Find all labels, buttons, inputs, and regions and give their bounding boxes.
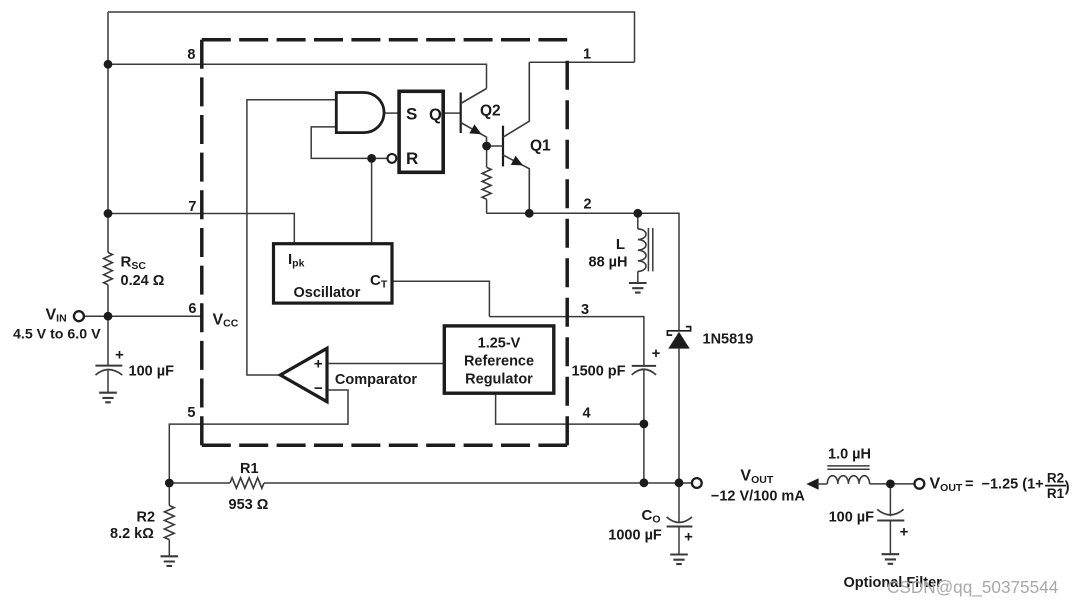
svg-text:1: 1 xyxy=(583,47,591,63)
svg-text:R2: R2 xyxy=(137,509,156,525)
svg-text:+: + xyxy=(115,346,124,363)
svg-text:): ) xyxy=(1065,480,1070,496)
svg-text:Q: Q xyxy=(429,106,442,124)
svg-text:Q2: Q2 xyxy=(480,103,501,120)
svg-text:5: 5 xyxy=(187,405,195,421)
svg-text:R: R xyxy=(406,149,418,168)
svg-text:8.2 kΩ: 8.2 kΩ xyxy=(110,526,154,542)
svg-text:S: S xyxy=(406,105,417,124)
svg-text:CSDN@qq_50375544: CSDN@qq_50375544 xyxy=(887,577,1059,597)
svg-text:0.24 Ω: 0.24 Ω xyxy=(121,273,165,289)
svg-text:1N5819: 1N5819 xyxy=(703,332,754,348)
svg-text:+: + xyxy=(652,345,661,362)
svg-text:R2: R2 xyxy=(1047,471,1064,486)
svg-text:7: 7 xyxy=(188,199,196,215)
svg-text:−: − xyxy=(314,380,323,397)
svg-text:+: + xyxy=(900,524,909,541)
svg-text:4: 4 xyxy=(583,406,591,422)
svg-text:88 µH: 88 µH xyxy=(589,255,628,271)
svg-text:L: L xyxy=(616,236,625,253)
svg-text:1500 pF: 1500 pF xyxy=(572,364,626,380)
svg-text:2: 2 xyxy=(584,197,592,213)
svg-text:Regulator: Regulator xyxy=(465,372,533,388)
svg-text:= −1.25 (1+: = −1.25 (1+ xyxy=(965,476,1044,492)
svg-text:R1: R1 xyxy=(240,461,259,477)
svg-text:R1: R1 xyxy=(1047,486,1065,501)
svg-text:8: 8 xyxy=(187,47,195,63)
svg-text:1.25-V: 1.25-V xyxy=(478,336,521,352)
svg-text:Comparator: Comparator xyxy=(335,372,418,388)
svg-text:−12 V/100 mA: −12 V/100 mA xyxy=(711,489,805,505)
svg-text:Reference: Reference xyxy=(464,354,534,370)
svg-text:6: 6 xyxy=(188,301,196,317)
svg-text:Oscillator: Oscillator xyxy=(294,285,361,301)
svg-text:+: + xyxy=(684,529,693,546)
svg-text:4.5 V to 6.0 V: 4.5 V to 6.0 V xyxy=(13,327,101,343)
svg-text:1000 µF: 1000 µF xyxy=(608,528,662,544)
svg-text:3: 3 xyxy=(581,302,589,318)
svg-text:Q1: Q1 xyxy=(530,137,551,154)
svg-text:953 Ω: 953 Ω xyxy=(229,497,269,513)
svg-text:100 µF: 100 µF xyxy=(829,509,875,525)
svg-text:1.0 µH: 1.0 µH xyxy=(828,447,871,463)
svg-text:100 µF: 100 µF xyxy=(129,364,175,380)
svg-text:+: + xyxy=(314,355,323,372)
